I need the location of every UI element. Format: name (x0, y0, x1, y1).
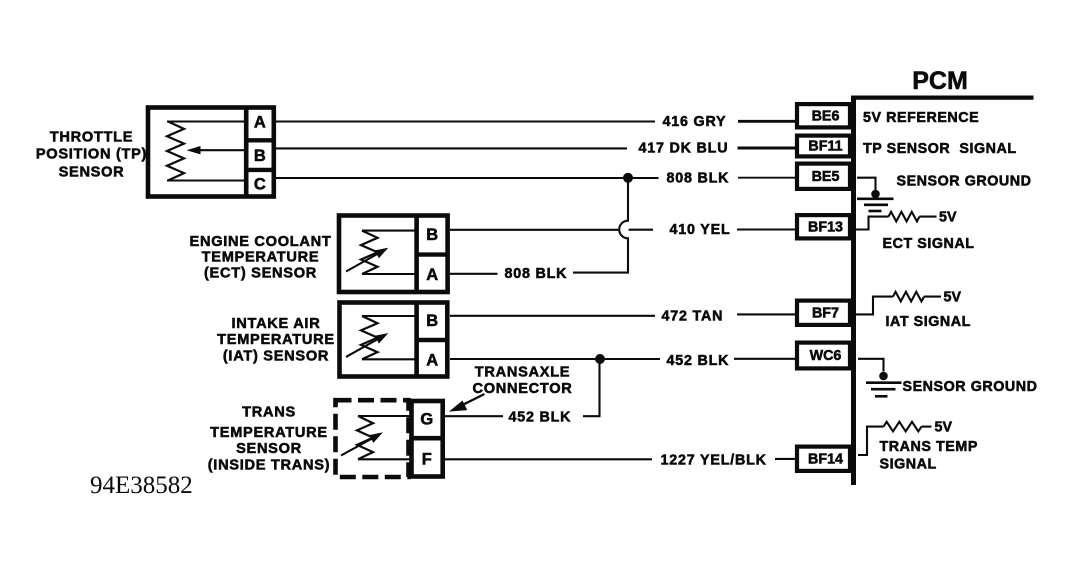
ECT thermistor arrow (346, 248, 388, 272)
svg-text:A: A (426, 266, 438, 284)
svg-text:B: B (426, 312, 438, 330)
junction node 452 BLK (595, 354, 605, 364)
svg-text:808 BLK: 808 BLK (667, 171, 730, 187)
svg-text:BF11: BF11 (808, 139, 842, 155)
ground node dot (BE5) (871, 190, 880, 199)
svg-text:(ECT) SENSOR: (ECT) SENSOR (204, 265, 317, 281)
svg-text:BE6: BE6 (812, 109, 840, 125)
throttle position sensor label (36, 129, 147, 180)
svg-text:TEMPERATURE: TEMPERATURE (202, 250, 320, 266)
svg-text:CONNECTOR: CONNECTOR (472, 381, 572, 397)
svg-text:BF13: BF13 (808, 219, 843, 235)
ECT sensor box (339, 214, 448, 293)
svg-text:5V: 5V (944, 290, 962, 306)
connector pin BF13 (797, 215, 850, 238)
trans thermistor arrow (341, 432, 383, 455)
wire: IAT thermistor to pin A (362, 358, 417, 360)
svg-text:452 BLK: 452 BLK (667, 353, 730, 369)
wire 808 BLK vertical link with crossover hop (573, 178, 628, 273)
wire: trans thermistor to pin G (358, 415, 412, 417)
svg-text:(IAT) SENSOR: (IAT) SENSOR (223, 348, 329, 364)
connector pin BE5 (797, 164, 850, 189)
engine coolant temperature sensor label (190, 234, 332, 281)
IAT thermistor (361, 316, 378, 359)
wire: ECT thermistor to pin A (362, 273, 417, 275)
svg-text:452 BLK: 452 BLK (509, 410, 572, 426)
connector pin BF14 (797, 447, 850, 471)
ECT thermistor (361, 231, 378, 274)
connector pin BF11 (797, 136, 850, 157)
svg-text:IAT SIGNAL: IAT SIGNAL (886, 314, 971, 330)
trans temperature sensor label (208, 405, 331, 474)
svg-text:SIGNAL: SIGNAL (880, 457, 937, 473)
TP sensor box (148, 106, 274, 197)
trans thermistor (357, 416, 373, 459)
wire: TP resistor bottom to pin C (167, 179, 246, 181)
svg-text:POSITION (TP): POSITION (TP) (36, 146, 147, 162)
svg-text:TEMPERATURE: TEMPERATURE (210, 425, 328, 441)
svg-text:TRANS TEMP: TRANS TEMP (880, 439, 978, 455)
PCM boundary lines (851, 96, 1034, 486)
svg-text:416 GRY: 416 GRY (663, 114, 727, 130)
wire: TP resistor top to pin A (167, 120, 246, 122)
IAT sensor box (340, 301, 448, 377)
TP potentiometer resistor (167, 122, 184, 181)
svg-text:SENSOR GROUND: SENSOR GROUND (903, 379, 1038, 395)
transaxle connector label (472, 364, 572, 397)
trans connector pin box (409, 401, 445, 477)
svg-text:B: B (254, 147, 266, 165)
svg-text:ECT SIGNAL: ECT SIGNAL (883, 236, 975, 252)
svg-text:B: B (426, 226, 438, 244)
connector pin BE6 (797, 104, 850, 127)
svg-text:94E38582: 94E38582 (90, 472, 193, 499)
ground node dot (WC6) (879, 372, 888, 381)
ground symbol (WC6) (866, 383, 902, 397)
wire 410 YEL (ECT B to BF13) (450, 228, 795, 230)
svg-text:TEMPERATURE: TEMPERATURE (217, 332, 335, 348)
ground symbol (BE5) (857, 199, 894, 211)
svg-text:SENSOR GROUND: SENSOR GROUND (897, 174, 1032, 190)
wire 472 TAN (IAT B to BF7) (450, 314, 795, 315)
pullup resistor (IAT) (893, 292, 924, 302)
connector pin BF7 (797, 301, 850, 325)
wire: IAT thermistor to pin B (362, 315, 417, 317)
svg-text:417 DK BLU: 417 DK BLU (639, 141, 729, 157)
svg-text:C: C (254, 176, 266, 194)
wire 452 BLK (IAT A to WC6) (450, 358, 795, 360)
wire BF14 to pullup resistor (858, 427, 884, 455)
svg-text:410 YEL: 410 YEL (670, 222, 731, 238)
svg-text:A: A (426, 351, 438, 369)
wire: ECT thermistor to pin B (362, 230, 417, 232)
TP wiper arrow to pin B (187, 146, 247, 154)
wire BE5 to sensor ground (857, 178, 876, 190)
IAT thermistor arrow (346, 333, 388, 357)
svg-text:5V: 5V (935, 419, 953, 435)
intake air temperature sensor label (217, 316, 335, 365)
svg-text:5V REFERENCE: 5V REFERENCE (863, 110, 979, 126)
svg-text:WC6: WC6 (810, 348, 842, 364)
wire 417 DK BLU (TP B to BF11) (276, 147, 795, 149)
wire 1227 YEL/BLK (trans F to BF14) (445, 458, 795, 460)
wire 416 GRY (TP A to BE6) (276, 120, 795, 122)
svg-text:SENSOR: SENSOR (236, 441, 302, 457)
svg-text:A: A (254, 114, 266, 132)
svg-text:472 TAN: 472 TAN (662, 309, 724, 325)
svg-text:BF7: BF7 (812, 305, 839, 321)
svg-text:ENGINE COOLANT: ENGINE COOLANT (190, 234, 332, 250)
wire: trans thermistor to pin F (358, 458, 412, 460)
wire 452 BLK (trans G) (445, 415, 503, 417)
wire WC6 to sensor ground (858, 359, 884, 372)
svg-text:BF14: BF14 (808, 451, 843, 467)
svg-text:TRANS: TRANS (242, 405, 296, 421)
svg-text:INTAKE AIR: INTAKE AIR (232, 316, 321, 332)
svg-text:SENSOR: SENSOR (59, 164, 125, 180)
svg-text:F: F (422, 450, 432, 468)
svg-text:TP SENSOR SIGNAL: TP SENSOR SIGNAL (863, 141, 1017, 157)
transaxle connector arrow (449, 394, 485, 412)
svg-text:G: G (420, 410, 433, 428)
wire BF7 to pullup resistor (856, 297, 893, 315)
wire resistor to 5V (trans temp) (922, 426, 932, 428)
svg-text:BE5: BE5 (812, 169, 840, 185)
pullup resistor (trans temp) (884, 422, 922, 432)
wire 452 BLK vertical link (583, 359, 600, 416)
wire 808 BLK from ECT A (450, 273, 498, 275)
wire BF13 to pullup resistor (856, 217, 889, 230)
junction node 808 BLK (623, 173, 633, 183)
svg-text:5V: 5V (939, 210, 957, 226)
trans sensor dashed box (336, 400, 409, 477)
wire resistor to 5V (IAT) (924, 296, 941, 298)
pullup resistor (ECT) (889, 212, 920, 222)
wire 808 BLK (TP C to BE5) (276, 177, 795, 179)
svg-text:TRANSAXLE: TRANSAXLE (475, 364, 571, 380)
svg-text:PCM: PCM (912, 67, 968, 95)
svg-text:(INSIDE TRANS): (INSIDE TRANS) (208, 457, 331, 473)
connector pin WC6 (797, 343, 850, 369)
svg-text:808 BLK: 808 BLK (505, 266, 568, 282)
label TRANS TEMP SIGNAL (880, 439, 978, 473)
svg-text:THROTTLE: THROTTLE (50, 129, 133, 145)
wire resistor to 5V (ECT) (920, 216, 937, 218)
svg-text:1227 YEL/BLK: 1227 YEL/BLK (661, 452, 767, 468)
